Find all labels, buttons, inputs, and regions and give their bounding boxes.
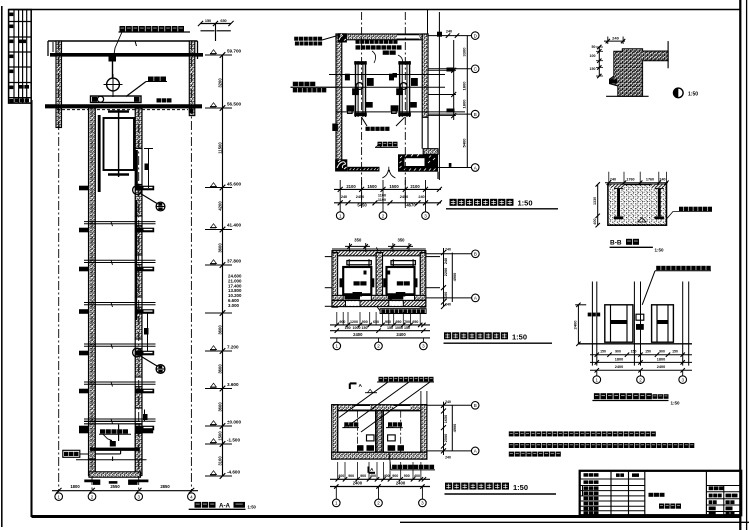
machine room left wall [56,41,62,128]
svg-text:1500: 1500 [218,431,223,441]
revision table row line 3 [9,51,32,53]
svg-text:11500: 11500 [218,142,223,154]
pit interior border right [383,411,421,453]
detail tag circle lower [156,365,165,374]
car door marks left [353,292,363,297]
text control cabinet [383,51,389,55]
left label leader line [291,86,337,88]
title block drawing name text [659,504,664,509]
roof parapet lines [201,30,215,32]
pit plan right horizontal dim lines [427,404,472,406]
title block col2 texts [616,473,620,477]
svg-text:2400: 2400 [657,365,665,369]
machine unit 2 open square bottom [392,109,397,114]
hook wheel circle [107,78,120,91]
machine unit 1 bottom cap [354,113,367,117]
svg-text:1100: 1100 [378,198,386,202]
machine plan right grid bubble B [471,65,479,73]
machine unit 1 block lower right [366,102,373,108]
svg-text:1:50: 1:50 [655,248,665,253]
door detail dim row3 [590,369,692,371]
BB top corner hatch right [651,184,665,188]
landing slab thin lines 5 [84,381,156,383]
shaft plan top dim ticks left [349,243,351,252]
BB top corner hatch left [610,184,626,188]
shaft plan right dim chain line1 [443,248,445,307]
pit buffer blocks left [367,435,375,441]
rail bracket marks left shaft [340,278,344,287]
sill detail circle lower [133,348,142,357]
svg-text:900: 900 [362,320,368,324]
machine plan right wall lower thin segment [421,117,423,148]
block wall note leader [322,36,338,41]
door detail small label [588,313,592,317]
car right shaft [387,267,415,294]
slab underside dashed line [57,109,188,111]
traction machine leader [372,51,376,63]
left short line y74 [329,74,340,76]
svg-text:2400: 2400 [573,320,578,330]
machine plan grid line y87 [291,86,446,88]
revision table row line 6 [9,97,32,99]
hook wheel horizontal axis [104,84,123,86]
shaft plan dim row1 [330,324,430,326]
title block right texts [709,486,714,490]
machine beam outline [91,96,142,103]
revision table row line 1 [9,21,32,23]
shaft plan dim row2 [330,330,430,332]
revision table frame [9,10,32,104]
pit plan dim row1 [330,478,430,480]
door detail title [594,393,600,399]
svg-text:1100: 1100 [378,194,386,198]
floor sill right floor2 [135,228,154,233]
beam label leader [126,82,146,97]
pit plan right dim chain [443,402,445,455]
waterproof diagonal leader 1 [361,382,430,432]
pit right wall hatched [135,433,142,475]
right footing block [128,480,148,485]
ground floor slab thin lines [84,420,140,422]
svg-text:900: 900 [404,474,410,478]
title block outer frame [580,471,742,515]
svg-text:150: 150 [631,350,637,354]
revision table row line 2 [9,36,32,38]
machine unit 2 top cap [398,61,411,64]
BB embedded I-beam left [614,186,623,189]
svg-text:3600: 3600 [218,402,223,412]
svg-text:2550: 2550 [110,484,120,489]
svg-text:7.200: 7.200 [227,345,239,350]
svg-text:2400: 2400 [396,481,406,486]
landing slab thin lines 1 [84,221,156,223]
machine plan door opening swing arcs [382,167,395,178]
revision table cell text 6 [9,86,13,90]
elevator car outline [104,118,135,170]
svg-text:1000: 1000 [395,326,403,330]
svg-text:240: 240 [612,36,619,41]
left footing block [84,480,100,485]
pit plan top wall hatched [332,405,427,411]
svg-text:A: A [474,449,477,454]
svg-text:B: B [474,403,477,408]
machine plan right wall hatched [422,34,428,117]
svg-text:A: A [474,165,477,170]
title block project text [649,493,654,497]
left wall pier block [332,124,338,132]
svg-text:240: 240 [445,456,451,460]
BB top dim line [605,182,668,184]
grid centerline D dashdot [190,41,192,492]
section A-A machine room roof line [48,40,198,42]
machine plan right dim chain outer [466,36,468,168]
section grid bubble 3 [135,493,143,501]
machine plan vestibule top band [423,149,438,155]
svg-text:5400: 5400 [462,138,467,148]
revision table cell text 5 [9,70,13,74]
BB drain slope mark [638,218,646,223]
machine plan left wall hatched [336,34,342,160]
svg-text:2100: 2100 [410,184,420,189]
svg-text:4900: 4900 [453,273,457,281]
roof hole note underline [119,31,191,33]
svg-text:B: B [474,252,477,257]
svg-text:900: 900 [348,474,354,478]
svg-text:240: 240 [444,258,448,264]
door dim text box lower floor [144,328,149,335]
svg-text:A-A: A-A [219,502,231,509]
waterproof note box [380,309,426,314]
svg-text:240: 240 [659,177,665,181]
revision table cell text 2 [9,25,13,29]
machine room slab label leader [114,32,123,58]
svg-text:1760: 1760 [646,177,654,181]
section cut mark bottom [367,467,369,473]
pit plan bottom wall hatched [332,452,427,459]
svg-text:150: 150 [404,326,410,330]
machine plan right grid bubble D [471,164,479,172]
label A-A section title part1 [195,502,202,508]
label A-A section title part2 [234,502,246,508]
shaft left wall hatched [89,108,96,459]
hook hanger line [112,61,114,78]
waterproof note text [381,309,385,313]
pit level text right [388,422,392,426]
machine room floor thick slab [45,104,202,108]
title block left rows [580,478,645,480]
svg-text:1:50: 1:50 [671,401,681,406]
block wall note text line1 [294,37,298,41]
svg-text:50: 50 [592,45,596,49]
svg-text:650: 650 [373,320,379,324]
svg-text:2500: 2500 [444,434,448,442]
footing center text [109,481,118,484]
svg-text:1:50: 1:50 [248,504,257,509]
pit plan right wall extension lines up [420,391,422,405]
sill detail circle floor1 [133,186,142,195]
sill blocks bottom wall [345,296,361,300]
svg-text:-4.600: -4.600 [227,470,240,475]
shaft plan bottom wall with sills [332,294,426,296]
machine beam left end block [92,97,97,102]
machine unit 2 bottom cap [398,113,411,117]
machine room floor slab thick line [50,53,203,57]
roof tick [135,41,137,46]
roof parapet dim line [201,23,232,25]
BB label underline [610,246,653,248]
block wall note text line2 [295,42,299,46]
svg-text:400: 400 [414,474,420,478]
svg-text:950: 950 [396,320,402,324]
title block left row texts [584,473,589,477]
svg-text:2400: 2400 [353,332,363,337]
floor sill right floor3 [135,267,154,272]
leader to detail tag floor1 [141,194,158,204]
svg-text:4200: 4200 [218,201,223,211]
text traction machine line2 [356,45,361,49]
svg-text:3.000: 3.000 [228,303,240,308]
machine unit 1 motor block left [345,74,350,81]
machine plan right dim chain inner [453,40,455,120]
shaft plan dim row3 [330,337,430,339]
machine unit 2 block mid [396,88,403,95]
svg-text:2400: 2400 [615,365,623,369]
grid line extensions left [325,256,332,258]
machine plan vestibule ring hole [405,158,425,166]
page border outer right [746,0,748,530]
machine plan right grid bubble A [471,32,479,40]
grid centerline B dashdot [91,108,93,492]
svg-text:1800: 1800 [657,357,665,361]
pit plan title underline [445,493,557,495]
shaft plan bottom band door gaps [346,301,361,306]
general notes line2 [509,443,514,448]
machine plan grid line y112 [336,111,465,113]
car plumb line in pit [118,425,120,442]
grid tick square below slab [189,109,194,114]
svg-text:400: 400 [338,474,344,478]
machine unit 2 sheave circle [400,83,407,90]
floor slab stub left floor7 [79,426,89,431]
svg-text:900: 900 [392,474,398,478]
svg-text:2200: 2200 [444,268,448,276]
BB concrete rectangle [608,184,667,225]
beam label underline [146,81,167,83]
BB embedded I-beam right [655,186,664,189]
top border line [9,9,741,11]
pit plan right chain2 [451,405,453,451]
machine plan 240 text right of vestibule [449,163,452,167]
door middle mullion blocks [636,314,644,320]
machine plan dashed car centerline 1 [361,12,363,206]
shaft plan title [444,332,451,339]
hoisting hook block [109,56,117,62]
rail bracket marks right shaft [383,278,386,287]
detail1 left dim chain [598,47,600,76]
svg-text:5450: 5450 [357,203,367,208]
block between machines [393,73,398,78]
ladder label text [64,452,68,456]
machine unit 1 motor block right [367,78,374,86]
roof left eave edge [47,41,49,56]
machine foundation leader lines [362,117,367,126]
svg-text:650: 650 [220,19,226,23]
small dim text 240 row B [447,109,455,113]
section grid bubble 1 [55,493,63,501]
svg-text:150: 150 [387,326,393,330]
roof parapet vertical [215,24,217,42]
svg-text:1760: 1760 [626,177,634,181]
shaft plan left wall hatched [332,253,338,308]
machine unit 2 motor block left [389,74,394,81]
svg-text:A: A [359,383,363,389]
ground floor stub left [79,429,89,434]
floor slab stub left floor1 [79,186,89,191]
grid centerline A dashdot [58,41,60,492]
svg-text:A: A [370,467,374,473]
BB leader to embed note [667,212,713,220]
machine plan vestibule ring wall [398,154,438,171]
ground door dim text [143,414,148,420]
small dim text 240 row C [447,68,455,72]
general notes line1 [509,431,514,436]
svg-text:240: 240 [445,400,451,404]
elevation dimension chain line [222,55,224,476]
counterweight right shaft [391,261,415,265]
machine unit 2 block lower left [391,105,399,111]
door detail title extra [653,394,658,399]
svg-text:2400: 2400 [396,332,406,337]
machine plan right grid bubble C [471,110,479,118]
car interior text right [397,281,403,285]
svg-text:-1.500: -1.500 [227,438,240,443]
pit plan bottom grid bubbles [335,487,337,500]
page border inner left [30,100,32,517]
svg-text:240: 240 [418,195,424,199]
door detail leader text [656,266,660,270]
note box leader [377,307,380,311]
revision table cell text 7 [9,99,13,103]
title block column line 4 [705,471,707,515]
svg-text:1500: 1500 [367,184,377,189]
pit plan middle wall hatched [376,411,382,453]
machine plan dim row1 line [334,188,441,190]
machine plan right wall extension line [427,10,429,34]
floor slab stub left floor4 [79,309,89,314]
svg-text:45.600: 45.600 [227,182,241,187]
machine plan bottom wall black band [347,167,379,172]
car left shaft [343,267,371,294]
svg-text:1:50: 1:50 [688,92,698,98]
detail1 top dim line [604,40,625,42]
door height dim line floor1 [148,149,150,189]
svg-text:900: 900 [360,474,366,478]
door detail base line [578,343,692,345]
svg-text:3600: 3600 [218,325,223,335]
shaft plan right horizontal dim lines [426,253,472,255]
page border outer left [1,6,3,527]
machine plan grid bubble 1 [336,212,344,220]
pit buffer blocks right [388,435,396,441]
machine unit 2 rail lines [399,61,401,117]
svg-text:950: 950 [412,320,418,324]
title block right col divider [723,486,725,516]
svg-text:3.600: 3.600 [227,382,239,387]
right guide rail [135,150,138,190]
pit level text left [344,422,348,426]
revision table cell text 3 [9,40,13,44]
machine plan dim row2 line [334,202,441,204]
machine foundation note text [366,127,370,131]
car h mark left [364,271,367,275]
car sling top bar [108,110,129,112]
pit plan top wall door gaps [353,406,370,410]
detail1 wall-slab hatched body [610,49,669,97]
page border inner right [739,0,741,530]
svg-text:240: 240 [610,177,616,181]
leader to detail tag lower [141,356,158,366]
shaft right wall hatched segments [135,108,142,149]
svg-text:1800: 1800 [70,484,80,489]
machine plan top-left corner block [338,33,347,42]
svg-text:3600: 3600 [218,364,223,374]
pit bottom slab hatched [89,472,141,477]
machine room right wall [189,41,195,116]
machine unit 1 open square bottom [348,109,353,114]
svg-text:150: 150 [645,350,651,354]
door frame right [652,305,674,342]
left guide rail [98,115,101,192]
shaft plan right grid bubbles [472,250,480,258]
svg-text:900: 900 [385,320,391,324]
machine plan right horizontal dim lines [428,35,471,37]
svg-text:56.500: 56.500 [227,102,241,107]
title block right rows [706,485,741,487]
pit plan dim extension verticals [337,462,339,480]
machine unit 1 sheave circle [356,83,363,90]
svg-text:1:50: 1:50 [513,483,528,492]
svg-text:240: 240 [445,303,451,307]
svg-text:900: 900 [615,350,621,354]
shaft plan right wall hatched [420,253,426,308]
ladder leader [80,453,89,455]
shaft plan top edge line [332,248,426,250]
section grid bubble 4 [188,493,196,501]
svg-text:B-B: B-B [610,240,622,247]
label machine room plan underline [446,208,558,210]
machine unit 2 motor block right [411,78,418,86]
revision table column line 1 [13,10,15,104]
shaft plan top tick mark [377,247,379,251]
waterproof elevation flag [368,389,373,392]
shaft plan title underline [444,342,553,344]
detail1 slab right cut line [667,41,669,68]
landing slab thin lines 6 [84,418,156,420]
machine plan grid line y74 [340,74,445,76]
svg-text:150: 150 [600,350,606,354]
svg-text:1:50: 1:50 [512,333,527,342]
door detail left top arrow [575,304,586,306]
machine unit 1 top cap [354,61,367,64]
svg-text:240: 240 [341,195,347,199]
detail tag circle floor1 [156,202,165,211]
shaft plan right dim chain line2 [451,253,453,302]
detail1 tag circle [674,88,684,98]
svg-text:1800: 1800 [462,81,467,91]
revision table column line 2 [18,10,20,104]
door frame left [605,305,633,342]
floor slab stub left floor3 [79,267,89,272]
